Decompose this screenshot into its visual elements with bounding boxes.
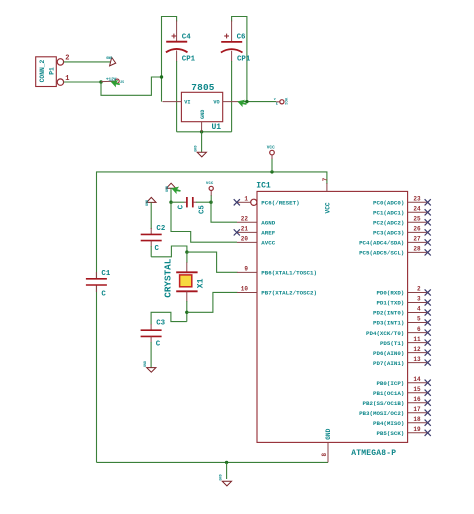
svg-text:C5: C5: [199, 205, 207, 214]
svg-text:GND: GND: [106, 57, 112, 61]
svg-text:IC1: IC1: [256, 182, 271, 191]
svg-text:3: 3: [417, 296, 421, 303]
svg-text:PB5(SCK): PB5(SCK): [376, 430, 404, 437]
svg-text:AREF: AREF: [261, 230, 275, 237]
svg-text:PD2(INT0): PD2(INT0): [373, 310, 404, 317]
svg-text:VI: VI: [184, 100, 190, 106]
svg-text:8: 8: [321, 453, 328, 457]
svg-text:23: 23: [413, 196, 421, 203]
svg-text:GND: GND: [194, 145, 198, 151]
svg-text:7805: 7805: [191, 82, 214, 93]
svg-text:1: 1: [244, 195, 248, 202]
svg-text:16: 16: [413, 396, 421, 403]
svg-text:vcc: vcc: [206, 182, 214, 186]
svg-text:PC4(ADC4/SDA): PC4(ADC4/SDA): [359, 240, 404, 247]
svg-text:PC0(ADC0): PC0(ADC0): [373, 200, 404, 207]
svg-text:28: 28: [413, 246, 421, 253]
svg-text:PD6(AIN0): PD6(AIN0): [373, 350, 404, 357]
svg-text:22: 22: [241, 215, 249, 222]
svg-text:C3: C3: [156, 320, 165, 328]
svg-text:17: 17: [413, 406, 421, 413]
svg-text:PB7(XTAL2/TOSC2): PB7(XTAL2/TOSC2): [261, 290, 317, 297]
svg-text:PB1(OC1A): PB1(OC1A): [373, 390, 404, 397]
svg-text:4: 4: [417, 306, 421, 313]
svg-text:PC2(ADC2): PC2(ADC2): [373, 220, 404, 227]
svg-text:26: 26: [413, 226, 421, 233]
svg-text:PB0(ICP): PB0(ICP): [376, 380, 404, 387]
svg-text:11: 11: [413, 336, 421, 343]
svg-text:PB3(MOSI/OC2): PB3(MOSI/OC2): [359, 410, 404, 417]
svg-text:U1: U1: [212, 123, 222, 132]
svg-text:X1: X1: [196, 278, 205, 288]
svg-text:PB6(XTAL1/TOSC1): PB6(XTAL1/TOSC1): [261, 270, 317, 277]
svg-text:PD4(XCK/T0): PD4(XCK/T0): [366, 330, 404, 337]
svg-text:25: 25: [413, 216, 421, 223]
svg-text:CP1: CP1: [182, 55, 196, 63]
svg-text:24: 24: [413, 206, 421, 213]
svg-text:GND: GND: [144, 361, 148, 367]
svg-text:6: 6: [417, 326, 421, 333]
svg-text:PC3(ADC3): PC3(ADC3): [373, 230, 404, 237]
svg-text:7: 7: [322, 177, 329, 181]
svg-text:PB2(SS/OC1B): PB2(SS/OC1B): [363, 400, 405, 407]
svg-text:12: 12: [413, 346, 421, 353]
svg-text:PD0(RXD): PD0(RXD): [376, 290, 404, 297]
svg-text:GND: GND: [146, 200, 150, 206]
svg-text:ATMEGA8-P: ATMEGA8-P: [351, 449, 396, 458]
svg-text:18: 18: [413, 416, 421, 423]
svg-text:5: 5: [417, 316, 421, 323]
svg-text:CONN_2: CONN_2: [39, 59, 46, 82]
svg-text:2: 2: [417, 286, 421, 293]
svg-text:VO: VO: [213, 100, 219, 106]
svg-text:GND: GND: [220, 474, 224, 480]
svg-text:9: 9: [244, 265, 248, 272]
svg-text:GND: GND: [200, 110, 206, 119]
svg-text:PD3(INT1): PD3(INT1): [373, 320, 404, 327]
svg-text:19: 19: [413, 426, 421, 433]
svg-text:C1: C1: [101, 270, 110, 278]
svg-text:25: 25: [120, 80, 124, 84]
svg-text:21: 21: [241, 225, 249, 232]
svg-text:5: 5: [276, 102, 278, 106]
svg-text:PD5(T1): PD5(T1): [380, 340, 404, 347]
svg-text:PB4(MISO): PB4(MISO): [373, 420, 404, 427]
svg-text:PC5(ADC5/SCL): PC5(ADC5/SCL): [359, 250, 404, 257]
svg-text:GND: GND: [166, 186, 170, 192]
svg-text:PD7(AIN1): PD7(AIN1): [373, 360, 404, 367]
svg-text:C4: C4: [182, 34, 191, 42]
svg-text:C: C: [155, 245, 160, 253]
svg-text:PC6(/RESET): PC6(/RESET): [261, 200, 299, 207]
svg-text:PC1(ADC1): PC1(ADC1): [373, 210, 404, 217]
svg-text:C2: C2: [156, 225, 165, 233]
svg-text:P1: P1: [49, 67, 56, 75]
svg-text:VCC: VCC: [283, 98, 287, 106]
svg-text:20: 20: [241, 235, 249, 242]
svg-text:C: C: [156, 340, 161, 348]
svg-text:15: 15: [413, 386, 421, 393]
svg-text:C: C: [101, 290, 106, 298]
svg-text:CP1: CP1: [237, 55, 251, 63]
svg-text:27: 27: [413, 236, 421, 243]
svg-text:10: 10: [241, 286, 249, 293]
svg-text:GND: GND: [325, 428, 332, 439]
svg-text:VCC: VCC: [325, 202, 332, 213]
svg-text:AGND: AGND: [261, 220, 275, 227]
svg-text:C6: C6: [237, 34, 246, 42]
svg-text:AVCC: AVCC: [261, 240, 275, 247]
svg-text:C: C: [178, 204, 186, 209]
svg-text:PD1(TXD): PD1(TXD): [376, 300, 404, 307]
svg-text:v: v: [274, 97, 276, 101]
svg-text:14: 14: [413, 376, 421, 383]
svg-text:13: 13: [413, 356, 421, 363]
svg-text:VCC: VCC: [267, 145, 275, 150]
svg-text:CRYSTAL: CRYSTAL: [162, 258, 173, 297]
